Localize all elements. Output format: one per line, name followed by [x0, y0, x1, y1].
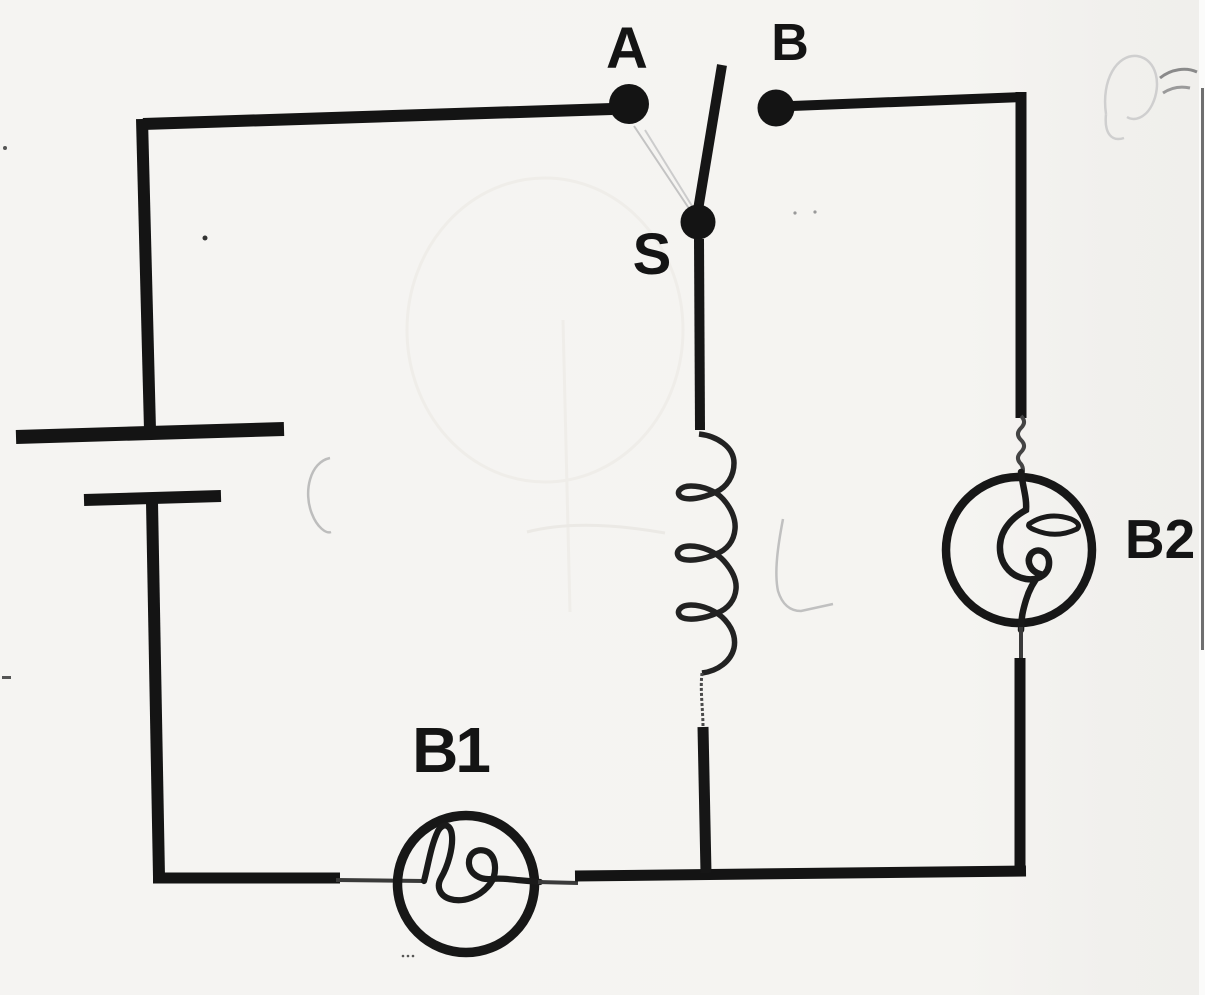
wire: bottom left horizontal — [153, 873, 340, 884]
wire: thin lead left of bulb B1 — [336, 880, 424, 881]
svg-text:B: B — [771, 14, 809, 72]
wire: right vertical upper — [1016, 92, 1027, 418]
wire: top left horizontal — [143, 109, 612, 124]
inductor coil — [677, 434, 736, 673]
bulb B2 circle — [946, 477, 1092, 623]
wire: thin below coil — [701, 673, 703, 727]
svg-text:B2: B2 — [1125, 508, 1195, 570]
node B — [758, 90, 795, 127]
svg-text:B1: B1 — [412, 714, 489, 786]
svg-text:A: A — [606, 16, 648, 81]
wire: switch S to coil — [699, 239, 700, 430]
wire: bottom horizontal right — [575, 871, 1026, 876]
wire: thin lead right of bulb B1 — [538, 882, 578, 883]
svg-text:S: S — [633, 222, 672, 287]
wire: left vertical upper — [142, 119, 150, 430]
wire: left vertical lower — [152, 502, 159, 877]
switch lever S — [697, 65, 722, 216]
wire: right vertical lower — [1015, 658, 1026, 876]
wire: thin below bulb B2 — [1019, 627, 1023, 660]
wire: wavy thin above bulb B2 — [1018, 416, 1024, 478]
wire: coil to bottom — [703, 727, 706, 873]
bulb B2 filament — [1000, 472, 1049, 630]
battery long plate — [16, 429, 284, 437]
node A — [609, 84, 649, 124]
wire: top right horizontal — [792, 97, 1022, 106]
bulb B2 filament leaf — [1029, 516, 1079, 534]
bulb B1 filament — [424, 825, 540, 900]
battery short plate — [84, 496, 221, 500]
bulb B1 circle — [398, 816, 535, 953]
node S — [681, 205, 716, 240]
